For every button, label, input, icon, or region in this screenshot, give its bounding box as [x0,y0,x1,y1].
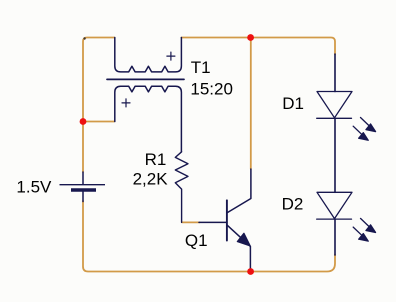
LED D1 triangle [317,92,352,118]
wire top-left from battery+ rail to T1 primary left lead [83,38,115,173]
svg-text:T1: T1 [191,58,211,77]
junction node on left rail [80,118,87,125]
junction node bottom [247,268,254,275]
resistor R1 zigzag [175,152,188,223]
LED D1 light arrow a [361,118,370,127]
svg-text:R1: R1 [145,150,167,169]
LED D1 anode lead [334,54,336,92]
battery negative plate [71,188,96,191]
LED D2 light arrow a [361,218,370,227]
wire from top node down to Q1 collector [250,38,252,170]
transformer T1 core [107,78,184,80]
transformer T1 secondary winding (bottom) [115,86,182,152]
svg-text:1.5V: 1.5V [16,178,52,197]
LED D2 cathode bar [317,218,352,220]
polarity + mark primary [167,52,175,60]
LED D2 cathode lead [334,219,336,255]
wire top-right from T1 primary right lead to LEDs [181,38,335,55]
transistor Q1 base bar [226,200,228,240]
LED D1 to D2 lead [334,118,336,192]
polarity + mark secondary [122,99,130,107]
transformer T1 primary winding (top) [115,38,182,72]
battery positive plate [60,184,106,186]
LED D1 light arrow b [353,126,362,135]
transistor Q1 emitter arrowhead [237,233,250,246]
svg-text:2,2K: 2,2K [133,170,169,189]
transistor Q1 base lead [199,221,227,223]
wire from R1 bottom to Q1 base [182,221,200,223]
svg-text:D2: D2 [282,195,304,214]
wire left rail below battery + bottom rail + right riser [83,201,335,272]
LED D2 light arrow b [353,227,362,236]
LED D1 cathode bar [317,117,352,119]
transistor Q1 emitter [227,225,251,272]
wire branch from left rail to T1 secondary left lead [83,121,114,123]
svg-text:Q1: Q1 [185,231,208,250]
svg-text:15:20: 15:20 [190,79,233,98]
top-left corner dark mark [83,37,85,39]
svg-text:D1: D1 [282,94,304,113]
junction node top [247,34,254,41]
transistor Q1 collector [227,169,251,213]
battery bottom lead [82,192,84,202]
battery top lead [82,172,84,184]
LED D2 triangle [317,192,352,218]
